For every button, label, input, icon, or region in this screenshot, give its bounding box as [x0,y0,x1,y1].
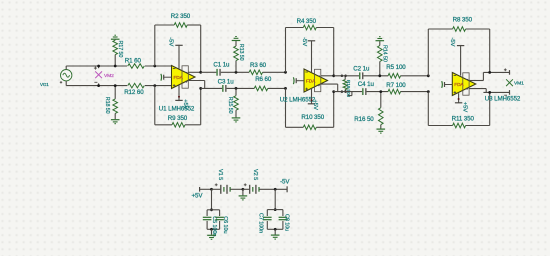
svg-text:R4 350: R4 350 [297,18,317,25]
node K1 [210,208,213,211]
svg-text:+5V: +5V [182,99,188,110]
wire [274,229,276,234]
label C2 1u [353,66,370,73]
label R18 50 [104,97,110,114]
op-amp U3 [452,73,476,96]
wire [286,27,334,29]
node A1 [153,65,156,68]
resistor R11 [453,123,466,128]
wire [145,65,172,67]
resistor R12 [128,83,145,88]
wire [188,81,204,89]
svg-text:V1 5: V1 5 [217,169,223,180]
label C1 1u [213,62,230,69]
resistor R7 [388,89,401,94]
power +5V (U1 bottom) [175,85,182,100]
svg-text:C1 1u: C1 1u [213,62,230,69]
svg-text:+5V: +5V [461,102,467,113]
svg-text:R8 350: R8 350 [453,17,473,24]
wire [469,89,509,93]
svg-text:FDA: FDA [174,75,184,81]
svg-text:R1 60: R1 60 [125,58,142,65]
wire [200,25,202,72]
label R6 60 [255,76,272,83]
wire [155,124,201,126]
resistor R15 [234,88,239,117]
node C2n [332,74,335,77]
svg-text:-5V: -5V [280,179,290,186]
node R14n [378,74,381,77]
wire [489,29,491,72]
capacitor C4 [363,88,366,95]
capacitor C7 [263,217,272,219]
svg-text:R2 350: R2 350 [171,13,191,20]
power +5V (U2 bottom) [308,89,315,104]
label R4 350 [297,18,317,25]
label C7 100n [258,213,264,233]
wire [155,24,201,26]
wire [259,188,287,190]
svg-text:-5V: -5V [301,37,307,46]
svg-text:R18 50: R18 50 [104,97,110,114]
ground [377,129,386,133]
op-amp U2 [304,69,328,92]
wire [333,92,335,128]
wire [201,87,286,89]
label -5V [167,37,173,46]
node PS2 [274,188,277,191]
wire [428,125,489,127]
capacitor C6 [215,217,224,219]
svg-text:VM1: VM1 [514,81,524,87]
resistor R18 [113,86,118,120]
svg-text:R5 100: R5 100 [386,64,406,71]
svg-text:VM2: VM2 [104,73,114,79]
label U3 LMH6552 [485,96,521,103]
wire [321,75,334,77]
label U1 LMH6552 [159,105,195,112]
svg-text:+5V: +5V [192,193,204,200]
power +5V (U3 bottom) [455,93,462,103]
svg-text:R14 50: R14 50 [382,45,388,62]
label C4 1u [358,81,375,88]
node R16n [379,90,382,93]
ground [376,37,385,41]
label -5V [301,37,307,46]
node PSG [242,188,245,191]
svg-text:R19 500: R19 500 [346,80,351,98]
label R2 350 [171,13,191,20]
resistor R1 [128,64,145,69]
svg-text:U3 LMH6552: U3 LMH6552 [485,96,521,103]
wire [230,188,243,190]
voltmeter VM1 [504,68,513,95]
power -5V (U2 top) [308,41,315,72]
node R15n [235,87,238,90]
capacitor (VOCM pin U3) [442,81,453,88]
node R19b [341,90,347,93]
wire [348,92,352,96]
resistor R10 [303,125,316,130]
wire [201,71,286,73]
ground [232,37,241,41]
svg-text:FDA: FDA [306,78,316,84]
resistor R16 [379,92,384,129]
svg-text:R17 50: R17 50 [117,41,123,58]
label +5V [192,193,204,200]
svg-text:C6 10u: C6 10u [222,216,228,233]
node K4 [274,228,277,231]
svg-text:VG1: VG1 [40,82,49,87]
svg-text:R9 350: R9 350 [168,115,188,122]
svg-text:-5V: -5V [167,37,173,46]
wire [242,189,244,195]
svg-text:R12 60: R12 60 [124,89,144,96]
voltmeter VM2 [94,66,102,86]
wire [211,229,213,235]
power -5V (U3 top) [457,46,464,76]
wire [211,189,213,210]
label +5V [312,100,318,111]
label -5V [449,38,455,47]
label R10 350 [301,114,324,121]
ground [111,35,120,39]
resistor R3 [249,70,262,75]
svg-text:U1 LMH6552: U1 LMH6552 [159,105,195,112]
node R19t [341,75,347,78]
wire [274,189,276,209]
label C5 100n [211,216,217,236]
ground [239,196,248,200]
svg-text:U2 LMH6552: U2 LMH6552 [280,96,316,103]
svg-text:+5V: +5V [312,100,318,111]
wire [286,126,334,128]
node A2 [284,71,287,74]
node A3 [427,74,430,77]
label R7 100 [386,82,406,89]
wire [334,91,429,93]
label U2 LMH6552 [280,96,316,103]
label R19 500 [346,80,351,98]
op-amp U1 [172,66,196,89]
power flag +5V [200,187,212,192]
svg-text:R7 100: R7 100 [386,82,406,89]
label R5 100 [386,64,406,71]
power -5V (U1 top) [175,45,182,69]
ground [271,235,280,239]
wire [267,210,283,230]
capacitor C2 [360,72,363,79]
resistor R4 [303,25,316,30]
node PS1 [210,188,213,191]
svg-text:C2 1u: C2 1u [353,66,370,73]
svg-text:R6 60: R6 60 [255,76,272,83]
svg-text:FDA: FDA [454,82,464,88]
wire [428,28,489,30]
wire [188,71,200,73]
ground [207,235,216,239]
node C1n [199,71,202,74]
resistor R8 [453,27,466,32]
svg-text:C4 1u: C4 1u [358,81,375,88]
label R13 50 [238,44,244,61]
wire [469,72,509,80]
wire [145,85,172,87]
svg-text:C3 1u: C3 1u [218,79,235,86]
label R9 350 [168,115,188,122]
node VM2 bottom [97,84,100,87]
label R17 50 [117,41,123,58]
svg-text:R11 350: R11 350 [452,115,475,122]
svg-text:V2 5: V2 5 [252,169,258,180]
label R3 60 [250,62,267,69]
ground [232,118,241,122]
wire [427,29,429,76]
label R14 50 [382,45,388,62]
resistor R5 [388,74,401,79]
wire [67,85,127,87]
node K3 [274,208,277,211]
label C6 10u [222,216,228,233]
capacitor (VOCM pin U1) [161,74,172,81]
label V2 5 [252,169,258,180]
label R8 350 [453,17,473,24]
wire [243,188,250,190]
label R12 60 [124,89,144,96]
label VM1 [514,81,524,87]
wire [212,188,221,190]
wire [334,75,429,77]
voltage source VG1 [60,66,72,86]
wire [285,88,287,127]
label C8 10u [283,214,289,231]
battery V2 [244,183,259,193]
resistor R14 [378,41,383,76]
wire [67,65,127,67]
label VM2 [104,73,114,79]
wire [321,84,338,92]
battery V1 [215,183,230,193]
label C3 1u [218,79,235,86]
node D2n [332,90,335,93]
svg-text:C8 10u: C8 10u [283,214,289,231]
svg-text:R15 50: R15 50 [227,97,233,114]
resistor R9 [172,123,185,128]
ground [111,120,120,124]
svg-text:R13 50: R13 50 [238,44,244,61]
node R17 [114,65,117,68]
svg-text:R3 60: R3 60 [250,62,267,69]
node R13n [235,71,238,74]
wire [489,92,491,125]
label R1 60 [125,58,142,65]
wire [200,88,202,124]
wire [333,28,335,76]
wire [207,210,220,230]
node E1 [488,71,491,74]
resistor R17 [113,40,118,66]
capacitor C3 [223,85,226,92]
svg-text:R16 50: R16 50 [354,116,374,123]
capacitor C8 [279,217,288,219]
label -5V [280,179,290,186]
capacitor C1 [217,69,220,76]
node B1 [153,84,156,87]
svg-text:C7 100n: C7 100n [258,213,264,233]
svg-text:-5V: -5V [449,38,455,47]
node K2 [210,228,213,231]
wire [154,86,156,125]
label VG1 [40,82,49,87]
label V1 5 [217,169,223,180]
capacitor C5 [203,217,212,219]
label R16 50 [354,116,374,123]
node D1n [199,87,202,90]
capacitor (VOCM pin U2) [293,77,304,84]
label +5V [182,99,188,110]
node VM2 top [97,65,100,68]
resistor R2 [174,23,187,28]
label R15 50 [227,97,233,114]
node B3 [427,90,430,93]
wire [154,25,156,66]
label R11 350 [452,115,475,122]
wire [427,92,429,126]
label +5V [461,102,467,113]
node E2 [488,91,491,94]
resistor R19 [343,76,347,92]
svg-text:R10 350: R10 350 [301,114,324,121]
node R18 [114,84,117,87]
resistor R6 [254,86,268,91]
wire [285,28,287,73]
node B2 [284,87,287,90]
power flag -5V [286,186,288,192]
resistor R13 [234,41,239,72]
